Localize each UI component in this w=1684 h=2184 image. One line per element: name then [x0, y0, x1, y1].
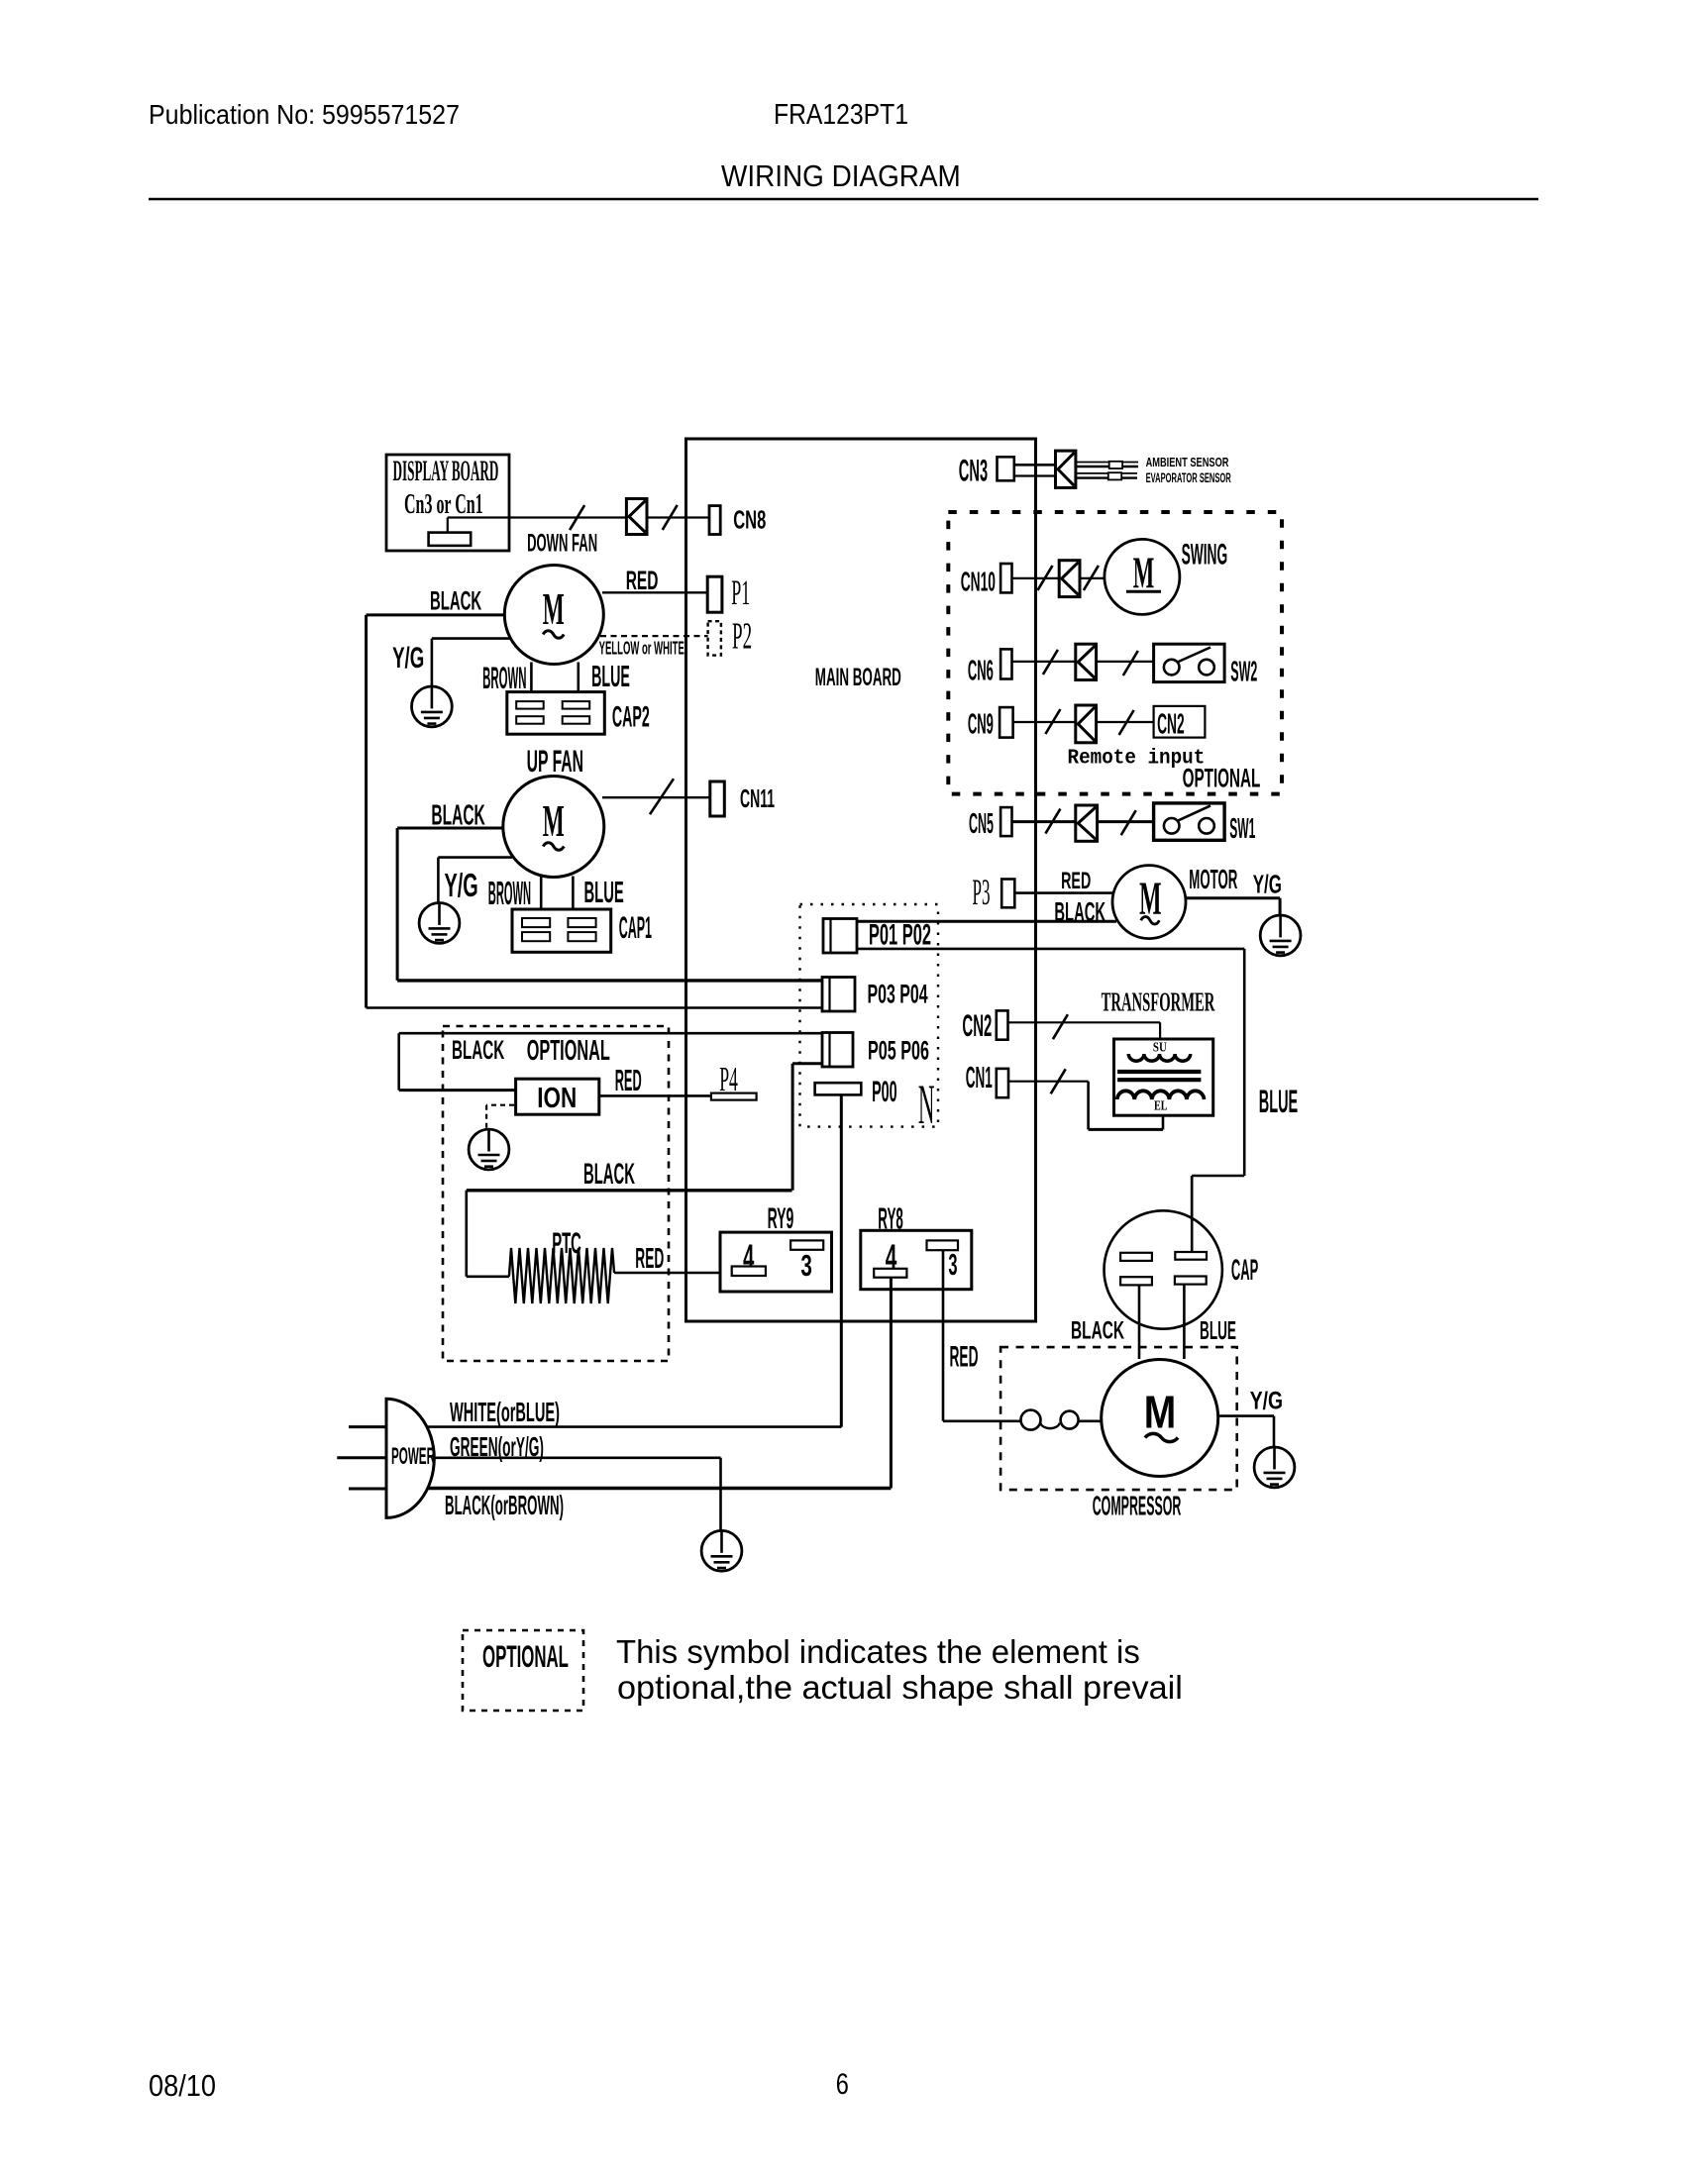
svg-text:MAIN BOARD: MAIN BOARD — [815, 665, 901, 691]
svg-text:BLUE: BLUE — [584, 876, 624, 909]
svg-text:CN10: CN10 — [961, 566, 996, 597]
wire Y/G compressor to ground — [1218, 1416, 1274, 1447]
svg-text:CN8: CN8 — [733, 505, 766, 535]
label WHITE(orBLUE) — [450, 1397, 560, 1427]
svg-text:CN2: CN2 — [962, 1009, 992, 1043]
label P00 — [872, 1075, 896, 1107]
label BLACK optional — [452, 1035, 505, 1066]
capacitor CAP1 box — [512, 909, 611, 952]
svg-text:FRA123PT1: FRA123PT1 — [774, 98, 908, 130]
svg-text:P05 P06: P05 P06 — [868, 1035, 929, 1065]
label P03 P04 — [868, 979, 929, 1008]
slash CN1 wire — [1051, 1069, 1066, 1093]
RY8 pin 3 bar — [927, 1240, 959, 1250]
wire BLACK ion loop to P05P06 — [399, 1033, 822, 1090]
SW1 contact circles — [1164, 818, 1214, 834]
label P2 — [732, 616, 752, 658]
label DISPLAY BOARD — [393, 455, 499, 486]
motor MOTOR tilde — [1141, 917, 1160, 925]
svg-text:CN9: CN9 — [968, 708, 994, 740]
motor SWING underline — [1126, 590, 1161, 593]
switch SW1 box — [1154, 803, 1225, 840]
connector CN9 — [1000, 707, 1013, 738]
svg-text:Y/G: Y/G — [1250, 1387, 1283, 1414]
svg-text:RED: RED — [635, 1243, 664, 1275]
motor SWING letter — [1133, 548, 1155, 598]
connector symbol on CN8 wire — [626, 499, 647, 535]
svg-text:Y/G: Y/G — [1253, 870, 1282, 899]
motor COMPRESSOR tilde — [1145, 1433, 1178, 1441]
motor M1 letter — [543, 584, 565, 634]
svg-text:BROWN: BROWN — [488, 877, 531, 912]
label RED motor — [1061, 868, 1091, 894]
transformer core lines — [1117, 1072, 1201, 1080]
svg-text:RED: RED — [1061, 868, 1091, 894]
transformer T1 box — [1114, 1039, 1213, 1115]
label BLACK motor — [1054, 896, 1105, 927]
svg-text:SU: SU — [1153, 1039, 1167, 1054]
connector symbol CN10 — [1059, 561, 1080, 597]
slash on CN11 wire — [650, 779, 674, 814]
wire BLUE into CAP plate — [1191, 1176, 1194, 1252]
wire BROWN to CAP2 — [530, 663, 533, 703]
svg-text:UP FAN: UP FAN — [527, 746, 583, 780]
svg-text:YELLOW or WHITE: YELLOW or WHITE — [599, 639, 684, 659]
connector CN1 — [997, 1069, 1008, 1097]
label Y/G up fan — [445, 867, 478, 904]
CAP plate 1 — [1120, 1253, 1152, 1261]
wire RY8 pin4 to power black — [890, 1278, 893, 1489]
label Remote input — [1068, 747, 1206, 771]
header publication number text — [149, 99, 460, 130]
wire BLACK orBROWN — [428, 1487, 891, 1490]
RY9 pin 4 bar — [732, 1267, 766, 1277]
label POWER — [391, 1444, 435, 1471]
label CN5 — [969, 807, 994, 839]
header model number FRA123PT1 — [774, 98, 908, 130]
label CAP1 — [619, 911, 652, 947]
slash CN2 wire — [1053, 1014, 1068, 1039]
label UP FAN — [527, 746, 583, 780]
sensor connector symbol — [1056, 451, 1076, 487]
label N neutral — [918, 1074, 935, 1136]
svg-text:P3: P3 — [973, 874, 991, 913]
label CN11 — [740, 785, 775, 814]
label OPTIONAL left box — [527, 1034, 610, 1066]
capacitor CAP circle — [1105, 1210, 1222, 1328]
wire BLUE cap to compressor — [1183, 1285, 1186, 1359]
wire RED ion to P4 — [599, 1094, 711, 1097]
svg-text:P03 P04: P03 P04 — [868, 979, 929, 1008]
wire Y/G up-fan to ground — [438, 858, 512, 902]
wire CN5 to SW1 — [1012, 820, 1154, 823]
footer date 08/10 — [149, 2070, 216, 2104]
slash CN6 wire 2 — [1123, 651, 1138, 676]
wire RED down-fan to P1 — [602, 591, 707, 593]
connector P01 P02 — [823, 919, 857, 954]
ground symbol power — [701, 1530, 742, 1571]
label CN6 — [968, 655, 994, 686]
wire RED P3 to motor — [1014, 891, 1114, 894]
evaporator sensor plug — [1108, 472, 1121, 479]
slash on CN8 wire 1 — [570, 505, 584, 530]
svg-text:TRANSFORMER: TRANSFORMER — [1102, 986, 1215, 1016]
svg-text:RED: RED — [626, 566, 659, 595]
label RED ptc — [635, 1243, 664, 1275]
svg-text:Y/G: Y/G — [392, 642, 424, 676]
svg-text:Cn3 or Cn1: Cn3 or Cn1 — [404, 489, 483, 520]
svg-text:CN6: CN6 — [968, 655, 994, 686]
connector CN10 — [1000, 564, 1011, 592]
label BLACK(orBROWN) — [445, 1491, 564, 1521]
label RY9 — [768, 1201, 794, 1234]
label RED ion — [615, 1063, 642, 1096]
footer page number 6 — [836, 2067, 849, 2100]
SW2 lever — [1178, 648, 1211, 663]
resistor PTC heater zigzag — [509, 1248, 614, 1303]
CAP plate 2 — [1175, 1252, 1207, 1260]
optional dashed box right swing sw2 remote — [948, 512, 1282, 794]
wire BLUE P01P02 to cap — [857, 949, 1244, 1252]
CAP1 plate 2 — [568, 918, 595, 927]
label Cn3 or Cn1 — [404, 489, 483, 520]
svg-text:DOWN FAN: DOWN FAN — [527, 530, 597, 558]
label BLUE compressor — [1200, 1316, 1236, 1345]
motor M2 tilde — [543, 843, 564, 851]
relay RY8 box — [861, 1230, 972, 1289]
connector CN3 — [998, 457, 1014, 480]
evaporator sensor wire pair — [1076, 473, 1137, 478]
svg-text:CN2: CN2 — [1157, 708, 1185, 740]
slash CN10 wire 2 — [1084, 566, 1099, 590]
svg-text:BLACK: BLACK — [1071, 1317, 1124, 1345]
ground symbol up fan — [419, 903, 460, 944]
slash CN6 wire 1 — [1043, 650, 1058, 675]
label PTC — [552, 1227, 581, 1260]
header rule line — [149, 198, 1538, 201]
label SU — [1153, 1039, 1167, 1054]
svg-text:GREEN(orY/G): GREEN(orY/G) — [450, 1431, 544, 1463]
label RED down fan — [626, 566, 659, 595]
connector P00 neutral bar — [815, 1083, 862, 1094]
svg-text:BROWN: BROWN — [482, 661, 526, 695]
svg-text:OPTIONAL: OPTIONAL — [482, 1640, 569, 1675]
motor MOTOR circle — [1112, 866, 1186, 939]
connector P2 dashed — [708, 621, 721, 655]
svg-text:P00: P00 — [872, 1075, 896, 1107]
svg-text:CN1: CN1 — [966, 1062, 993, 1095]
label BLACK ptc wire — [583, 1159, 635, 1192]
svg-text:RY9: RY9 — [768, 1201, 794, 1234]
svg-text:WHITE(orBLUE): WHITE(orBLUE) — [450, 1397, 560, 1427]
label Y/G compressor — [1250, 1387, 1283, 1414]
wire GREEN orY/G to ground — [434, 1458, 720, 1530]
display board box — [386, 455, 509, 551]
dashed box around compressor — [1000, 1347, 1237, 1490]
svg-text:Y/G: Y/G — [445, 867, 478, 904]
label SW1 — [1229, 812, 1255, 845]
label BLUE wire — [1259, 1084, 1298, 1119]
ground symbol compressor — [1254, 1447, 1295, 1488]
slash CN9 wire 1 — [1045, 709, 1060, 734]
CAP2 plate 3 — [516, 716, 544, 724]
label OPTIONAL legend — [482, 1640, 569, 1675]
svg-text:AMBIENT SENSOR: AMBIENT SENSOR — [1146, 457, 1229, 470]
connector symbol CN5 — [1076, 805, 1098, 841]
label BLACK down fan — [430, 586, 482, 616]
label YELLOW or WHITE — [599, 639, 684, 659]
label P01 P02 — [869, 919, 931, 952]
label P1 — [731, 574, 750, 613]
svg-text:POWER: POWER — [391, 1444, 435, 1471]
wire CN10 to swing motor — [1012, 577, 1105, 579]
ambient sensor plug — [1109, 462, 1122, 468]
ambient sensor wire pair — [1076, 463, 1138, 468]
motor SWING circle — [1105, 539, 1180, 614]
wire CN6 to SW2 — [1012, 661, 1154, 663]
connector CN11 — [710, 781, 725, 816]
svg-text:EL: EL — [1154, 1097, 1168, 1113]
wire BLACK cap to compressor — [1138, 1285, 1141, 1359]
transformer secondary coil — [1117, 1091, 1205, 1099]
wire RED ptc to RY9 — [614, 1272, 732, 1275]
svg-text:EVAPORATOR SENSOR: EVAPORATOR SENSOR — [1146, 471, 1231, 486]
label MOTOR — [1189, 864, 1237, 895]
RY9 pin 3 bar — [790, 1240, 823, 1249]
wire BLACK P01P02 to motor — [857, 920, 1116, 923]
svg-text:COMPRESSOR: COMPRESSOR — [1093, 1491, 1182, 1521]
label P3 — [973, 874, 991, 913]
svg-text:M: M — [1144, 1388, 1177, 1439]
label SW2 — [1230, 656, 1257, 687]
label CN1 — [966, 1062, 993, 1095]
label CN8 — [733, 505, 766, 535]
wire BROWN to CAP1 — [540, 877, 543, 920]
ground symbol ion — [469, 1129, 509, 1170]
ground symbol motor — [1260, 915, 1301, 956]
overload protector — [1021, 1410, 1079, 1430]
label P05 P06 — [868, 1035, 929, 1065]
motor M2 up fan circle — [503, 777, 604, 878]
motor COMPRESSOR letter — [1144, 1388, 1177, 1439]
svg-text:P1: P1 — [731, 574, 750, 613]
label BLACK up fan — [431, 798, 485, 830]
label Y/G down fan — [392, 642, 424, 676]
label AMBIENT SENSOR — [1146, 457, 1229, 470]
title WIRING DIAGRAM — [721, 159, 961, 194]
connector P3 — [1001, 880, 1014, 908]
label P4 — [719, 1061, 738, 1099]
svg-text:CAP2: CAP2 — [612, 700, 650, 733]
label BLUE down fan — [591, 661, 630, 693]
switch SW2 box — [1154, 644, 1225, 681]
main board outline — [686, 439, 1036, 1321]
wire WHITE orBLUE — [428, 1425, 842, 1428]
svg-text:6: 6 — [836, 2067, 849, 2100]
wire BLACK P05P06 to PTC — [467, 1191, 792, 1277]
label CN3 — [959, 454, 988, 488]
label BROWN down fan — [482, 661, 526, 695]
svg-text:MOTOR: MOTOR — [1189, 864, 1237, 895]
svg-text:BLUE: BLUE — [1259, 1084, 1298, 1119]
wire BLUE to CAP1 — [572, 877, 575, 920]
connector P03 P04 — [822, 978, 855, 1012]
transformer primary coil — [1128, 1054, 1190, 1061]
motor M2 letter — [543, 796, 565, 846]
wire BLACK up-fan to P03P04 — [397, 828, 822, 981]
label RED compressor wire — [950, 1339, 979, 1372]
svg-text:N: N — [918, 1074, 935, 1136]
connector symbol CN6 — [1076, 644, 1097, 679]
CAP plate 4 — [1175, 1277, 1207, 1285]
svg-text:Publication No: 5995571527: Publication No: 5995571527 — [149, 99, 460, 130]
wire up-fan to CN11 — [602, 796, 710, 798]
connector symbol CN9 — [1076, 705, 1097, 743]
motor M1 down fan circle — [504, 566, 603, 665]
label CN2 in box — [1157, 708, 1185, 740]
SW1 lever — [1178, 805, 1211, 820]
svg-text:BLACK: BLACK — [1054, 896, 1105, 927]
svg-text:M: M — [543, 796, 565, 846]
svg-text:optional,the actual shape shal: optional,the actual shape shall prevail — [617, 1670, 1183, 1706]
ION box — [516, 1079, 599, 1114]
label RY8 — [878, 1201, 903, 1235]
svg-text:P4: P4 — [719, 1061, 738, 1099]
label TRANSFORMER — [1102, 986, 1215, 1016]
display board connector bar — [429, 533, 472, 546]
label CN2 — [962, 1009, 992, 1043]
label CAP — [1231, 1253, 1258, 1287]
optional dashed box around ION and PTC — [443, 1026, 669, 1361]
remote connector CN2 box — [1154, 706, 1206, 738]
dashed wire YELLOW or WHITE to P2 — [600, 635, 708, 637]
slash on CN8 wire 2 — [663, 505, 678, 530]
CAP1 plate 4 — [568, 932, 595, 941]
wire BLACK down-fan to P03P04 — [367, 615, 822, 1008]
wire CN9 to CN2 remote — [1013, 721, 1154, 723]
svg-text:BLACK: BLACK — [431, 798, 485, 830]
label EL — [1154, 1097, 1168, 1113]
connector P4 bar — [711, 1093, 757, 1100]
label ION — [537, 1084, 577, 1114]
svg-text:OPTIONAL: OPTIONAL — [1183, 763, 1261, 793]
CAP plate 3 — [1120, 1277, 1152, 1285]
CAP2 plate 2 — [563, 701, 590, 709]
svg-text:CAP1: CAP1 — [619, 911, 652, 947]
wire overload to compressor — [1079, 1420, 1102, 1423]
svg-text:SW1: SW1 — [1229, 812, 1255, 845]
label OPTIONAL right box — [1183, 763, 1261, 793]
slash CN9 wire 2 — [1119, 710, 1134, 735]
dashed wire ion to ground — [486, 1105, 514, 1128]
svg-text:M: M — [543, 584, 565, 634]
svg-text:SW2: SW2 — [1230, 656, 1257, 687]
ground symbol down fan — [412, 686, 453, 727]
svg-text:ION: ION — [537, 1084, 577, 1114]
label BLUE up fan — [584, 876, 624, 909]
svg-text:RED: RED — [615, 1063, 642, 1096]
power plug shape — [386, 1399, 434, 1517]
motor MOTOR letter — [1139, 874, 1161, 925]
wire P00 stem to power white — [840, 1094, 843, 1426]
RY8 pin 4 label — [886, 1238, 897, 1278]
label BROWN up fan — [488, 877, 531, 912]
wire CN1 to transformer EL — [1008, 1082, 1163, 1130]
svg-text:BLACK: BLACK — [452, 1035, 505, 1066]
RY8 pin 3 label — [948, 1249, 957, 1283]
RY9 pin 3 label — [800, 1248, 812, 1283]
connector P05 P06 — [822, 1033, 853, 1068]
wires CN3 to sensor plug — [1014, 465, 1056, 475]
svg-text:OPTIONAL: OPTIONAL — [527, 1034, 610, 1066]
motor M1 tilde — [543, 631, 564, 639]
svg-text:3: 3 — [948, 1249, 957, 1283]
connector CN8 — [709, 506, 720, 535]
wire P05P06 lower pin — [792, 1064, 822, 1191]
wire display board to CN8 — [448, 518, 709, 533]
CAP1 plate 1 — [522, 918, 550, 927]
svg-text:This symbol indicates the elem: This symbol indicates the element is — [616, 1634, 1140, 1671]
wire BLUE to CAP2 — [577, 663, 579, 703]
legend text line 1 — [616, 1634, 1140, 1671]
label Y/G motor — [1253, 870, 1282, 899]
svg-text:CAP: CAP — [1231, 1253, 1258, 1287]
label BLACK compressor — [1071, 1317, 1124, 1345]
RY8 pin 4 bar — [874, 1269, 906, 1278]
motor COMPRESSOR circle — [1102, 1360, 1218, 1477]
svg-text:BLACK(orBROWN): BLACK(orBROWN) — [445, 1491, 564, 1521]
CAP2 plate 4 — [563, 716, 590, 724]
legend OPTIONAL dashed box — [463, 1630, 583, 1711]
svg-text:BLUE: BLUE — [1200, 1316, 1236, 1345]
power plug prongs — [337, 1427, 386, 1489]
label SWING — [1182, 537, 1228, 570]
connector CN6 — [1000, 649, 1011, 678]
wire CN2 to transformer — [1008, 1022, 1161, 1039]
legend text line 2 — [617, 1670, 1183, 1706]
CAP1 plate 3 — [522, 932, 550, 941]
svg-text:CN5: CN5 — [969, 807, 994, 839]
label DOWN FAN — [527, 530, 597, 558]
svg-text:P2: P2 — [732, 616, 752, 658]
svg-text:WIRING DIAGRAM: WIRING DIAGRAM — [721, 159, 961, 194]
wire Y/G motor to ground — [1186, 898, 1280, 915]
svg-text:CN11: CN11 — [740, 785, 775, 814]
svg-text:BLACK: BLACK — [583, 1159, 635, 1192]
connector CN2 — [997, 1010, 1008, 1039]
svg-text:DISPLAY BOARD: DISPLAY BOARD — [393, 455, 499, 486]
slash CN10 wire 1 — [1038, 566, 1053, 590]
label CAP2 — [612, 700, 650, 733]
label CN9 — [968, 708, 994, 740]
svg-text:SWING: SWING — [1182, 537, 1228, 570]
RY9 pin 4 label — [743, 1239, 755, 1278]
slash CN5 wire 2 — [1121, 810, 1136, 835]
connector P1 — [707, 576, 722, 612]
CAP2 plate 1 — [516, 701, 544, 709]
svg-text:RED: RED — [950, 1339, 979, 1372]
connector CN5 — [1000, 807, 1011, 836]
relay RY9 box — [720, 1232, 832, 1292]
dotted box around P01-P00 connectors — [800, 904, 939, 1127]
svg-text:08/10: 08/10 — [149, 2070, 216, 2104]
label MAIN BOARD — [815, 665, 901, 691]
capacitor CAP2 box — [507, 692, 605, 735]
label EVAPORATOR SENSOR — [1146, 471, 1231, 486]
svg-text:3: 3 — [800, 1248, 812, 1283]
slash CN5 wire 1 — [1045, 809, 1060, 834]
svg-text:CN3: CN3 — [959, 454, 988, 488]
